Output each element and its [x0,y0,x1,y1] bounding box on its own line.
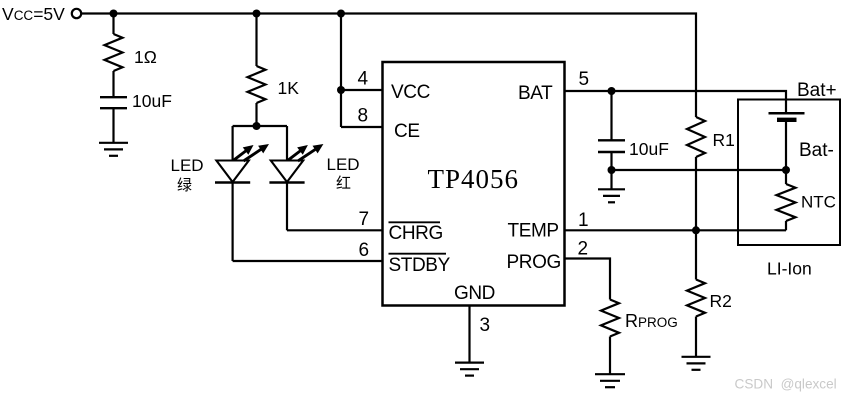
svg-text:R1: R1 [713,130,735,150]
svg-text:BAT: BAT [518,83,553,104]
svg-text:VCC: VCC [391,82,430,103]
svg-text:Bat-: Bat- [799,140,834,161]
svg-text:PROG: PROG [507,252,561,273]
svg-text:STDBY: STDBY [389,255,451,276]
svg-text:10uF: 10uF [629,139,669,159]
svg-text:TP4056: TP4056 [428,164,520,194]
svg-text:LI-Ion: LI-Ion [767,259,812,279]
svg-text:CHRG: CHRG [389,223,443,244]
svg-text:8: 8 [358,106,369,127]
svg-text:1: 1 [578,210,589,231]
svg-text:TEMP: TEMP [508,221,559,242]
svg-text:4: 4 [358,69,369,90]
svg-text:红: 红 [336,175,351,192]
svg-text:1Ω: 1Ω [134,47,157,67]
svg-text:CSDN @qlexcel: CSDN @qlexcel [735,377,837,392]
svg-text:绿: 绿 [177,177,192,194]
svg-text:5: 5 [579,69,590,90]
svg-text:1K: 1K [278,78,300,98]
svg-text:GND: GND [454,283,495,304]
svg-text:10uF: 10uF [132,91,172,111]
svg-text:LED: LED [171,156,204,175]
svg-text:VCC=5V: VCC=5V [2,4,65,24]
svg-text:NTC: NTC [801,193,836,212]
svg-text:3: 3 [480,315,491,336]
svg-text:2: 2 [578,239,589,260]
svg-text:7: 7 [359,209,370,230]
svg-text:R2: R2 [710,291,732,311]
svg-text:Bat+: Bat+ [797,80,837,101]
svg-text:6: 6 [359,240,370,261]
svg-text:LED: LED [327,155,360,174]
svg-text:CE: CE [394,121,420,142]
